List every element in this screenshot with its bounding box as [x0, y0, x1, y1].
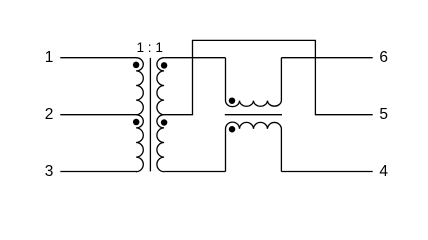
wire secondary top to choke upper winding	[164, 57, 225, 59]
polarity dot choke upper	[229, 97, 236, 104]
choke upper winding	[226, 58, 282, 107]
svg-text:5: 5	[379, 106, 388, 123]
svg-text:1 : 1: 1 : 1	[136, 40, 162, 55]
svg-text:3: 3	[45, 163, 54, 180]
wire pin 2 to primary center tap	[60, 114, 137, 116]
wire pin 1 to primary top	[60, 57, 136, 59]
polarity dot secondary upper	[161, 62, 168, 69]
choke core	[225, 114, 282, 116]
svg-text:4: 4	[379, 163, 388, 180]
polarity dot primary lower	[133, 119, 140, 126]
wire net 5: center tap over the top to pin 5	[164, 40, 373, 114]
polarity dot primary upper	[133, 62, 140, 69]
wire pin 3 to primary bottom	[60, 171, 137, 173]
winding T1 primary upper (pins 1-2)	[136, 58, 143, 115]
wire choke upper to pin 6	[281, 57, 372, 59]
winding T1 secondary lower	[157, 115, 164, 172]
svg-text:1: 1	[45, 49, 54, 66]
choke lower winding	[226, 122, 282, 171]
core T1	[149, 58, 151, 171]
polarity dot choke lower	[229, 126, 236, 133]
winding T1 primary lower (pins 2-3)	[136, 115, 143, 172]
svg-text:6: 6	[379, 49, 388, 66]
wire secondary bottom to choke lower winding	[164, 171, 225, 173]
polarity dot secondary lower	[161, 119, 168, 126]
svg-text:2: 2	[45, 106, 54, 123]
winding T1 secondary upper	[157, 58, 164, 115]
wire choke lower to pin 4	[281, 171, 372, 173]
